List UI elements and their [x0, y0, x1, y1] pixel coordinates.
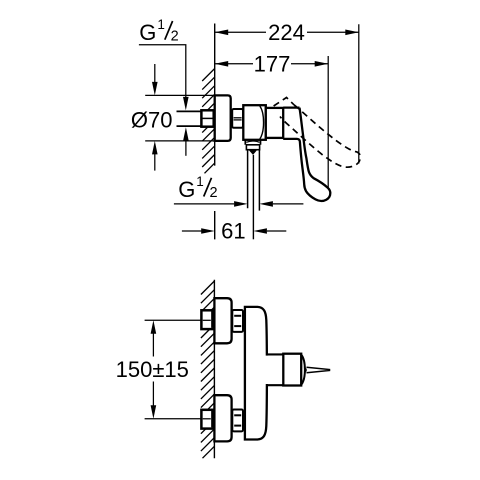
shower hose lines	[248, 150, 260, 211]
hose cone	[249, 150, 257, 155]
wall hatching (plan view)	[201, 281, 215, 458]
lower union nut (plan)	[232, 410, 243, 432]
lower wall hex nut (plan)	[201, 410, 213, 429]
wall hatching (side view)	[202, 69, 215, 174]
G1/2 lower dimension (hose thread)	[174, 203, 234, 205]
lever cap (plan)	[283, 354, 301, 386]
body plate (plan)	[245, 307, 267, 440]
upper union nut (plan)	[232, 310, 243, 332]
extension line 177	[327, 56, 329, 189]
extension line 150 bottom	[145, 418, 202, 420]
svg-text:150±15: 150±15	[116, 357, 189, 382]
upper wall hex nut (plan)	[201, 310, 213, 329]
escutcheon rosette (side view)	[215, 95, 231, 140]
svg-text:Ø70: Ø70	[131, 107, 173, 132]
solid lever (down position)	[283, 108, 330, 201]
body curvature arc	[260, 106, 264, 139]
dimension Ø70 extension lines	[145, 95, 215, 140]
svg-text:1: 1	[196, 174, 204, 189]
hose nut	[246, 145, 259, 150]
lever blade (pointing right)	[307, 367, 330, 372]
opposing arrow below pipe	[185, 140, 187, 156]
cartridge sleeve (side view)	[266, 108, 283, 138]
dimension 150±15	[152, 333, 154, 357]
svg-text:177: 177	[254, 52, 291, 77]
svg-text:2: 2	[210, 185, 218, 201]
upper stub to body	[242, 316, 245, 326]
upper rosette (plan)	[214, 298, 231, 343]
svg-text:2: 2	[171, 28, 179, 44]
dashed lever (raised position)	[274, 98, 361, 168]
lever cap top (side view)	[283, 106, 299, 108]
cartridge neck (plan)	[265, 356, 284, 384]
dimension 61	[182, 230, 202, 232]
lower stub to body	[242, 414, 245, 424]
extension line 150 top	[145, 319, 202, 321]
outlet stub below body	[245, 140, 260, 145]
Ø70 arrows	[154, 64, 156, 83]
mixer body (side view)	[243, 105, 265, 140]
union nut	[232, 109, 243, 128]
wall line (side view)	[214, 24, 216, 240]
supply pipe nipple behind wall	[177, 111, 202, 126]
wall line (plan view)	[213, 280, 215, 458]
leader for G1/2 upper	[139, 45, 186, 98]
nipple between rosette and union nut	[231, 111, 233, 126]
extension line 224	[358, 24, 360, 163]
svg-text:1: 1	[157, 17, 165, 32]
dimension 177	[215, 63, 329, 65]
hose center line	[252, 155, 254, 239]
svg-text:224: 224	[268, 20, 305, 45]
wall hex nut	[201, 110, 213, 126]
lower rosette (plan)	[214, 395, 231, 441]
svg-text:G: G	[178, 177, 195, 202]
lever hub dome (plan)	[301, 355, 305, 385]
svg-text:G: G	[139, 20, 156, 45]
dimension 224	[215, 31, 359, 33]
svg-text:61: 61	[221, 219, 245, 244]
lever blade root	[304, 367, 307, 374]
